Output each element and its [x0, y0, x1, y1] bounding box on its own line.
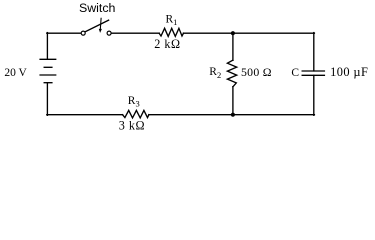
wire R2 branch top	[232, 33, 234, 60]
svg-text:100 µF: 100 µF	[330, 65, 368, 79]
resistor R2 zigzag	[227, 60, 236, 87]
resistor R1 zigzag	[159, 28, 183, 36]
svg-text:500 Ω: 500 Ω	[241, 65, 272, 79]
svg-text:R1: R1	[166, 13, 178, 27]
wire R1-to-top-right corner	[183, 32, 314, 34]
wire left vertical above battery	[46, 33, 48, 60]
wire R2 branch bottom	[232, 87, 234, 115]
switch actuate arrow head	[99, 29, 102, 33]
battery V1 long plate 1	[40, 58, 56, 60]
svg-text:2 kΩ: 2 kΩ	[154, 37, 180, 51]
junction node top (R2 to top wire)	[231, 31, 235, 35]
svg-text:C: C	[291, 67, 299, 79]
wire bottom-left horizontal	[47, 114, 123, 116]
svg-text:20 V: 20 V	[4, 67, 27, 79]
junction node bottom (R2 to bottom wire)	[231, 113, 235, 117]
switch right contact circle	[107, 31, 111, 35]
wire R3-to-bottom-right corner	[149, 114, 315, 116]
wire left vertical below battery	[46, 83, 48, 116]
resistor R3 zigzag	[123, 110, 149, 118]
battery V1 short plate 1	[44, 66, 52, 68]
capacitor C bottom plate	[302, 74, 324, 76]
svg-text:R3: R3	[128, 95, 140, 109]
switch actuate arrow shaft	[99, 18, 102, 29]
wire right vertical below capacitor	[313, 75, 315, 115]
battery V1 short plate 2	[44, 82, 52, 84]
switch left contact circle	[81, 31, 85, 35]
battery V1 long plate 2	[40, 74, 56, 76]
wire top-left horizontal	[47, 32, 81, 34]
svg-text:R2: R2	[209, 66, 221, 80]
svg-text:3 kΩ: 3 kΩ	[119, 118, 145, 132]
wire switch-to-R1	[111, 32, 159, 34]
svg-text:Switch: Switch	[79, 1, 116, 15]
capacitor C top plate	[302, 70, 324, 72]
switch blade	[85, 20, 109, 32]
wire right vertical above capacitor	[313, 33, 315, 71]
